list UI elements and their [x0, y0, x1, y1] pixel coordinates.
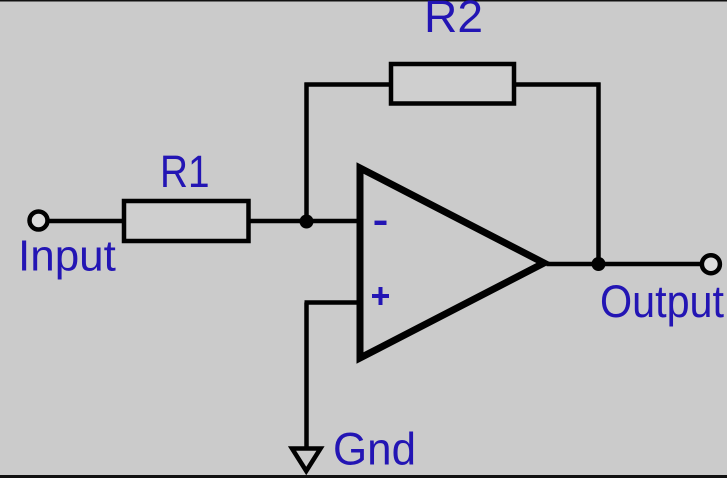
svg-text:Output: Output — [600, 276, 724, 327]
op-amp U1 triangle — [360, 168, 544, 358]
wire: op-amp output — [547, 262, 703, 267]
wire: feedback top left segment — [305, 82, 392, 87]
wire: non-inverting input horizontal — [305, 300, 362, 305]
output terminal circle — [702, 255, 720, 273]
node B junction dot — [592, 257, 606, 271]
input terminal circle — [30, 212, 48, 230]
wire: R1 to op-amp inverting input — [248, 219, 361, 224]
bottom border bar — [0, 475, 727, 478]
ground symbol — [292, 449, 321, 472]
node A junction dot — [300, 215, 314, 229]
op-amp plus pin mark — [372, 294, 389, 298]
op-amp minus pin mark — [375, 221, 387, 225]
top border bar — [0, 0, 727, 2]
svg-text:Input: Input — [18, 232, 116, 281]
wire: input terminal to R1 — [47, 219, 124, 224]
svg-text:Gnd: Gnd — [333, 424, 416, 475]
wire: feedback left vertical — [304, 83, 309, 222]
resistor R2 — [391, 64, 514, 104]
svg-text:R1: R1 — [160, 146, 210, 197]
wire: feedback right vertical — [596, 83, 601, 265]
wire: ground vertical — [304, 303, 309, 448]
svg-text:R2: R2 — [424, 0, 483, 42]
wire: feedback top right segment — [514, 82, 601, 87]
resistor R1 — [124, 201, 249, 241]
